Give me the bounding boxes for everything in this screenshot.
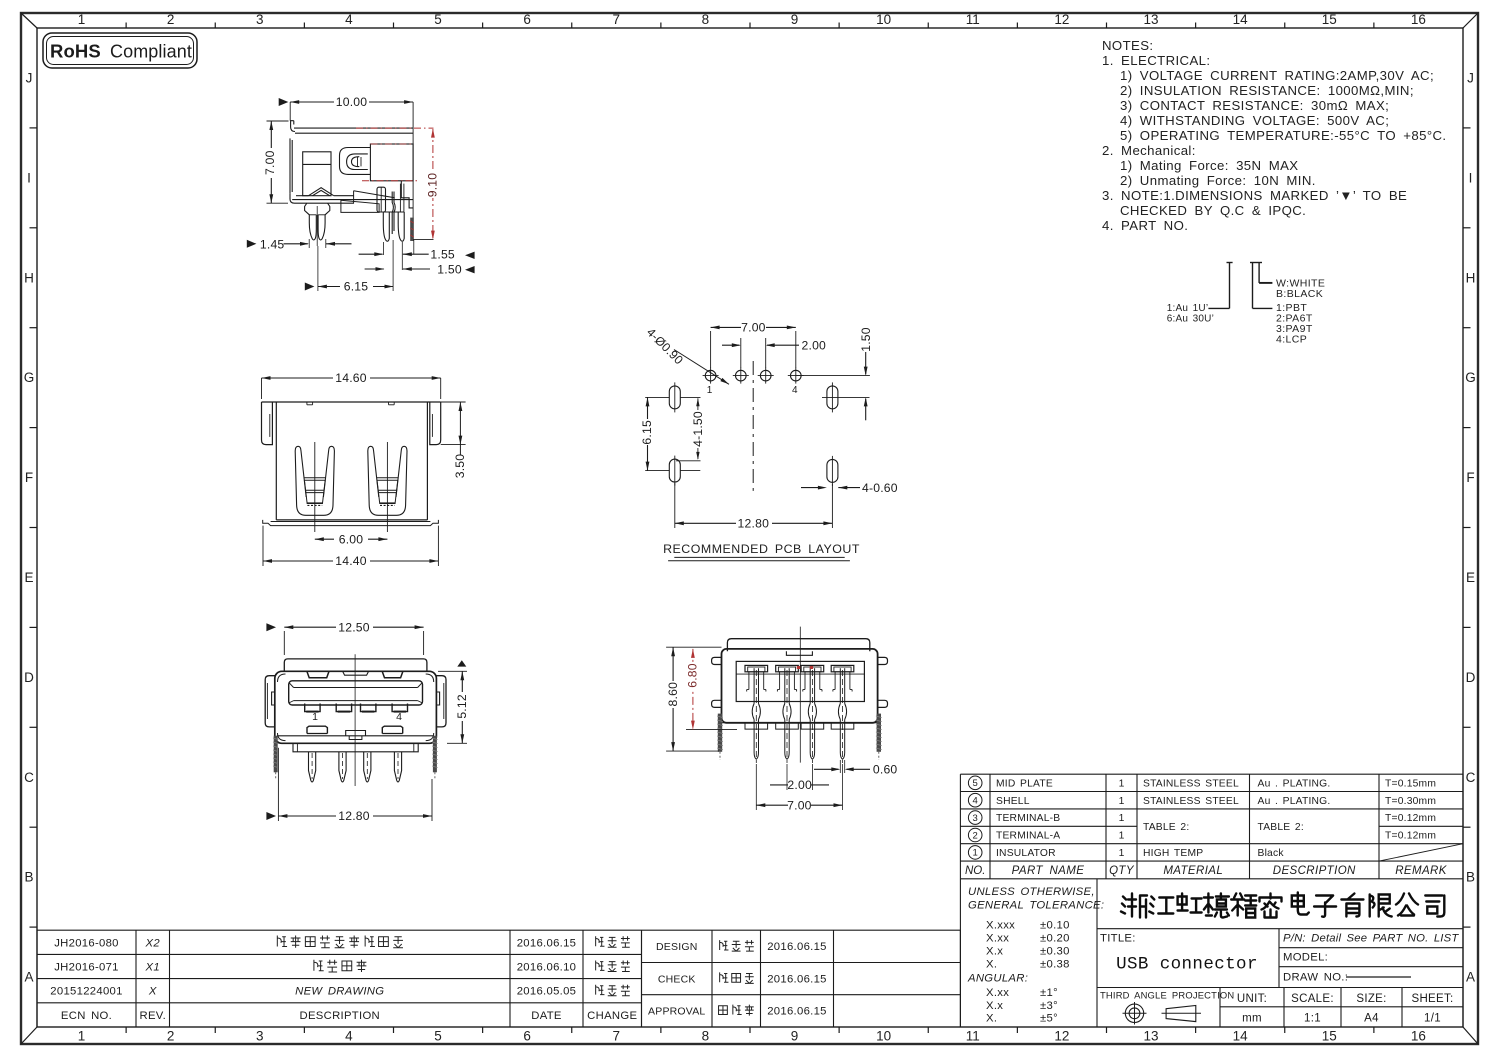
svg-text:13: 13 <box>1144 12 1159 27</box>
svg-text:±0.38: ±0.38 <box>1040 959 1070 971</box>
svg-text:14.60: 14.60 <box>335 371 367 385</box>
svg-text:1: 1 <box>1119 813 1125 824</box>
svg-text:G: G <box>1465 370 1476 385</box>
svg-text:4) WITHSTANDING VOLTAGE: 500V: 4) WITHSTANDING VOLTAGE: 500V AC; <box>1120 113 1389 128</box>
svg-text:5) OPERATING TEMPERATURE:-55°C: 5) OPERATING TEMPERATURE:-55°C TO +85°C. <box>1120 128 1447 143</box>
svg-text:4: 4 <box>345 12 353 27</box>
svg-text:1) VOLTAGE CURRENT RATING:2AMP: 1) VOLTAGE CURRENT RATING:2AMP,30V AC; <box>1120 68 1434 83</box>
svg-text:4: 4 <box>973 796 978 807</box>
svg-text:14: 14 <box>1233 1029 1249 1044</box>
svg-text:±0.20: ±0.20 <box>1040 933 1070 945</box>
svg-text:T=0.12mm: T=0.12mm <box>1385 831 1436 842</box>
svg-text:±0.30: ±0.30 <box>1040 946 1070 958</box>
svg-text:SHEET:: SHEET: <box>1411 993 1453 1005</box>
svg-text:E: E <box>24 570 33 585</box>
svg-text:15: 15 <box>1322 1029 1337 1044</box>
svg-text:2016.06.15: 2016.06.15 <box>517 937 577 949</box>
svg-text:MID PLATE: MID PLATE <box>996 778 1053 789</box>
svg-text:ECN NO.: ECN NO. <box>61 1010 112 1022</box>
svg-text:1: 1 <box>1119 848 1125 859</box>
svg-text:NEW DRAWING: NEW DRAWING <box>295 986 384 998</box>
svg-text:DESCRIPTION: DESCRIPTION <box>299 1010 380 1022</box>
svg-text:GENERAL TOLERANCE:: GENERAL TOLERANCE: <box>968 900 1104 912</box>
svg-text:5: 5 <box>434 12 442 27</box>
svg-text:3. NOTE:1.DIMENSIONS MARKED ’▼: 3. NOTE:1.DIMENSIONS MARKED ’▼’ TO BE <box>1102 188 1407 203</box>
svg-text:UNLESS OTHERWISE,: UNLESS OTHERWISE, <box>968 886 1095 898</box>
svg-text:1.50: 1.50 <box>859 327 873 352</box>
svg-text:X.xxx: X.xxx <box>986 920 1015 932</box>
svg-text:1: 1 <box>1119 831 1125 842</box>
svg-text:PART NAME: PART NAME <box>1012 865 1085 877</box>
svg-text:X.: X. <box>986 1013 997 1025</box>
svg-text:J: J <box>1467 70 1474 85</box>
svg-text:14: 14 <box>1233 12 1249 27</box>
svg-text:10.00: 10.00 <box>336 95 368 109</box>
svg-text:G: G <box>24 370 35 385</box>
svg-text:X.xx: X.xx <box>986 933 1009 945</box>
svg-text:H: H <box>24 270 34 285</box>
svg-text:D: D <box>24 670 34 685</box>
svg-text:HIGH TEMP: HIGH TEMP <box>1143 848 1203 859</box>
svg-text:2) Unmating Force: 10N MIN.: 2) Unmating Force: 10N MIN. <box>1120 173 1316 188</box>
svg-text:DESIGN: DESIGN <box>656 941 697 953</box>
svg-text:4. PART NO.: 4. PART NO. <box>1102 218 1188 233</box>
svg-text:QTY: QTY <box>1109 865 1135 877</box>
svg-text:2016.06.15: 2016.06.15 <box>767 1006 827 1018</box>
svg-text:C: C <box>1466 770 1476 785</box>
svg-text:MODEL:: MODEL: <box>1283 952 1328 964</box>
svg-text:±5°: ±5° <box>1040 1013 1058 1025</box>
svg-text:1: 1 <box>312 711 318 723</box>
svg-text:1: 1 <box>78 1029 86 1044</box>
svg-text:TABLE 2:: TABLE 2: <box>1258 822 1304 833</box>
svg-text:2.00: 2.00 <box>787 778 812 792</box>
svg-text:I: I <box>27 170 31 185</box>
svg-text:10: 10 <box>876 12 891 27</box>
svg-text:6.00: 6.00 <box>339 533 364 547</box>
svg-text:CHECKED BY Q.C & IPQC.: CHECKED BY Q.C & IPQC. <box>1120 203 1306 218</box>
svg-text:SHELL: SHELL <box>996 796 1030 807</box>
svg-text:USB connector: USB connector <box>1116 955 1258 975</box>
svg-text:mm: mm <box>1242 1013 1262 1025</box>
svg-text:X: X <box>148 986 157 998</box>
svg-text:SIZE:: SIZE: <box>1356 993 1386 1005</box>
svg-text:MATERIAL: MATERIAL <box>1163 865 1223 877</box>
svg-text:±0.10: ±0.10 <box>1040 920 1070 932</box>
svg-text:5: 5 <box>973 778 978 789</box>
svg-text:THIRD ANGLE PROJECTION: THIRD ANGLE PROJECTION <box>1100 990 1234 1001</box>
svg-text:F: F <box>25 470 33 485</box>
svg-text:Black: Black <box>1258 848 1285 859</box>
svg-text:6.15: 6.15 <box>640 420 654 445</box>
svg-text:12.50: 12.50 <box>338 620 370 634</box>
svg-text:15: 15 <box>1322 12 1337 27</box>
svg-text:DESCRIPTION: DESCRIPTION <box>1273 865 1356 877</box>
svg-text:0.60: 0.60 <box>873 763 898 777</box>
svg-text:5: 5 <box>434 1029 442 1044</box>
svg-text:4-1.50: 4-1.50 <box>691 411 705 447</box>
svg-text:DRAW NO.:: DRAW NO.: <box>1283 972 1348 984</box>
svg-text:T=0.30mm: T=0.30mm <box>1385 796 1436 807</box>
svg-text:REV.: REV. <box>139 1010 166 1022</box>
svg-text:7.00: 7.00 <box>263 150 277 175</box>
svg-text:2: 2 <box>973 830 978 841</box>
svg-text:JH2016-080: JH2016-080 <box>54 937 119 949</box>
svg-text:RECOMMENDED PCB LAYOUT: RECOMMENDED PCB LAYOUT <box>663 542 860 556</box>
svg-text:4-0.60: 4-0.60 <box>862 481 898 495</box>
svg-text:1: 1 <box>707 385 713 396</box>
svg-text:2016.06.10: 2016.06.10 <box>517 962 577 974</box>
svg-text:NOTES:: NOTES: <box>1102 38 1154 53</box>
svg-text:12: 12 <box>1054 12 1069 27</box>
svg-text:6: 6 <box>523 12 531 27</box>
svg-text:7: 7 <box>613 1029 621 1044</box>
svg-text:6: 6 <box>523 1029 531 1044</box>
svg-text:JH2016-071: JH2016-071 <box>54 962 119 974</box>
svg-text:9: 9 <box>791 1029 799 1044</box>
svg-text:12.80: 12.80 <box>338 809 370 823</box>
svg-text:1/1: 1/1 <box>1424 1013 1441 1025</box>
svg-text:12: 12 <box>1054 1029 1069 1044</box>
svg-text:X.x: X.x <box>986 946 1003 958</box>
svg-text:X.xx: X.xx <box>986 987 1009 999</box>
svg-text:6.80: 6.80 <box>685 663 699 688</box>
svg-text:X.: X. <box>986 959 997 971</box>
svg-text:REMARK: REMARK <box>1395 865 1448 877</box>
svg-text:NO.: NO. <box>965 865 985 877</box>
svg-text:3) CONTACT RESISTANCE: 30mΩ MA: 3) CONTACT RESISTANCE: 30mΩ MAX; <box>1120 98 1389 113</box>
svg-text:1: 1 <box>1119 778 1125 789</box>
svg-text:6.15: 6.15 <box>344 279 369 293</box>
svg-text:12.80: 12.80 <box>738 517 770 531</box>
svg-text:4:LCP: 4:LCP <box>1276 334 1307 346</box>
svg-text:2.00: 2.00 <box>802 339 827 353</box>
svg-text:STAINLESS STEEL: STAINLESS STEEL <box>1143 796 1239 807</box>
svg-text:11: 11 <box>966 12 980 27</box>
svg-text:3.50: 3.50 <box>453 454 467 479</box>
svg-text:A: A <box>24 970 33 985</box>
svg-text:B: B <box>24 870 33 885</box>
svg-text:I: I <box>1469 170 1473 185</box>
svg-text:CHECK: CHECK <box>658 973 696 985</box>
svg-text:8: 8 <box>702 1029 710 1044</box>
svg-text:A: A <box>1466 970 1475 985</box>
svg-text:H: H <box>1466 270 1476 285</box>
svg-text:3: 3 <box>256 1029 264 1044</box>
svg-text:1: 1 <box>78 12 86 27</box>
svg-text:2016.06.15: 2016.06.15 <box>767 973 827 985</box>
svg-text:STAINLESS STEEL: STAINLESS STEEL <box>1143 778 1239 789</box>
svg-text:E: E <box>1466 570 1475 585</box>
svg-text:SCALE:: SCALE: <box>1291 993 1334 1005</box>
svg-text:7: 7 <box>613 12 621 27</box>
svg-text:1: 1 <box>973 848 978 859</box>
svg-text:3: 3 <box>973 813 978 824</box>
svg-text:6:Au 30U’: 6:Au 30U’ <box>1167 314 1214 325</box>
svg-text:1) Mating Force: 35N MAX: 1) Mating Force: 35N MAX <box>1120 158 1299 173</box>
svg-text:TERMINAL-A: TERMINAL-A <box>996 831 1060 842</box>
svg-text:1: 1 <box>1119 796 1125 807</box>
svg-text:INSULATOR: INSULATOR <box>996 848 1056 859</box>
svg-text:UNIT:: UNIT: <box>1237 993 1267 1005</box>
svg-text:D: D <box>1466 670 1476 685</box>
svg-text:9: 9 <box>791 12 799 27</box>
svg-text:4: 4 <box>396 711 402 723</box>
svg-text:14.40: 14.40 <box>335 554 367 568</box>
svg-text:8: 8 <box>702 12 710 27</box>
svg-text:2. Mechanical:: 2. Mechanical: <box>1102 143 1196 158</box>
svg-text:3: 3 <box>256 12 264 27</box>
svg-text:B: B <box>1466 870 1475 885</box>
svg-text:20151224001: 20151224001 <box>50 986 122 998</box>
svg-text:TITLE:: TITLE: <box>1100 933 1136 945</box>
svg-text:11: 11 <box>966 1029 980 1044</box>
svg-text:1:Au 1U’: 1:Au 1U’ <box>1167 303 1208 314</box>
svg-text:A4: A4 <box>1364 1013 1379 1025</box>
svg-text:2) INSULATION RESISTANCE: 1000: 2) INSULATION RESISTANCE: 1000MΩ,MIN; <box>1120 83 1414 98</box>
svg-text:8.60: 8.60 <box>666 682 680 707</box>
svg-text:2016.05.05: 2016.05.05 <box>517 986 577 998</box>
svg-text:B:BLACK: B:BLACK <box>1276 288 1323 300</box>
svg-text:RoHS: RoHS <box>50 41 101 62</box>
svg-text:7.00: 7.00 <box>787 798 812 812</box>
svg-text:16: 16 <box>1411 12 1426 27</box>
svg-text:1.45: 1.45 <box>260 237 285 251</box>
svg-text:1:1: 1:1 <box>1304 1013 1321 1025</box>
svg-text:X1: X1 <box>145 962 160 974</box>
svg-text:4: 4 <box>792 385 798 396</box>
svg-text:F: F <box>1466 470 1474 485</box>
svg-text:ANGULAR:: ANGULAR: <box>967 973 1028 985</box>
svg-text:Au . PLATING.: Au . PLATING. <box>1258 796 1331 807</box>
svg-text:16: 16 <box>1411 1029 1426 1044</box>
svg-text:DATE: DATE <box>531 1010 562 1022</box>
svg-text:±3°: ±3° <box>1040 1000 1058 1012</box>
svg-text:C: C <box>24 770 34 785</box>
svg-text:T=0.12mm: T=0.12mm <box>1385 813 1436 824</box>
svg-text:X.x: X.x <box>986 1000 1003 1012</box>
svg-text:1.50: 1.50 <box>437 263 462 277</box>
svg-text:X2: X2 <box>145 937 161 949</box>
svg-text:CHANGE: CHANGE <box>587 1010 637 1022</box>
svg-text:5.12: 5.12 <box>455 694 469 719</box>
svg-text:TABLE 2:: TABLE 2: <box>1143 822 1189 833</box>
svg-text:T=0.15mm: T=0.15mm <box>1385 778 1436 789</box>
svg-text:J: J <box>26 70 33 85</box>
svg-text:Compliant: Compliant <box>110 42 192 62</box>
svg-text:TERMINAL-B: TERMINAL-B <box>996 813 1060 824</box>
svg-text:APPROVAL: APPROVAL <box>648 1006 705 1018</box>
svg-text:2: 2 <box>167 12 175 27</box>
svg-text:2: 2 <box>167 1029 175 1044</box>
svg-text:13: 13 <box>1144 1029 1159 1044</box>
svg-text:1.55: 1.55 <box>430 248 455 262</box>
svg-text:7.00: 7.00 <box>741 321 766 335</box>
svg-text:9.10: 9.10 <box>426 173 440 198</box>
svg-text:±1°: ±1° <box>1040 987 1058 999</box>
svg-text:4: 4 <box>345 1029 353 1044</box>
svg-text:2016.06.15: 2016.06.15 <box>767 941 827 953</box>
svg-text:1. ELECTRICAL:: 1. ELECTRICAL: <box>1102 53 1210 68</box>
svg-text:10: 10 <box>876 1029 891 1044</box>
svg-text:P/N: Detail See PART NO. LIST: P/N: Detail See PART NO. LIST <box>1283 933 1459 945</box>
svg-text:Au . PLATING.: Au . PLATING. <box>1258 778 1331 789</box>
